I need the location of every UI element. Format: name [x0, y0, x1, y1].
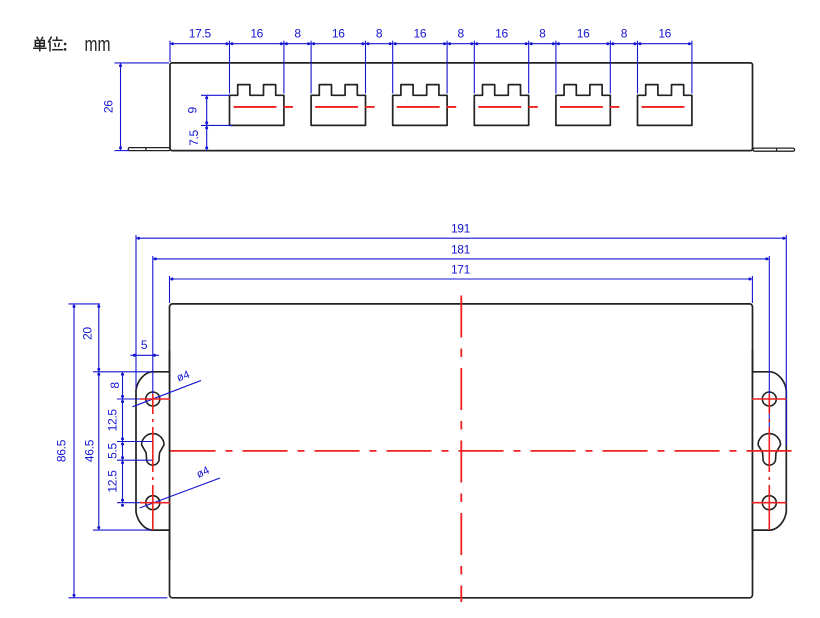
dim 86.5 line — [73, 304, 75, 598]
right ear bottom hole Ø4 — [762, 496, 776, 510]
svg-text:46.5: 46.5 — [82, 439, 96, 462]
dim 181 line — [153, 258, 770, 260]
svg-text:5: 5 — [141, 338, 148, 352]
unit label 位 (wei) glyph — [48, 37, 63, 52]
left ear bottom hole Ø4 — [146, 496, 160, 510]
leader line top Ø4 — [133, 381, 202, 407]
front view body outline — [170, 304, 753, 598]
stacked dim line 8 12.5 5.5 12.5 — [122, 372, 124, 503]
dim 26 extension bottom — [115, 150, 130, 152]
front view right mounting ear — [752, 372, 786, 530]
svg-text:191: 191 — [451, 222, 471, 236]
ear top extension line — [93, 371, 151, 373]
red mark left top hole — [140, 398, 170, 400]
svg-text:8: 8 — [621, 26, 628, 40]
unit label colon — [64, 43, 66, 45]
red mark right top hole — [752, 398, 787, 400]
svg-text:181: 181 — [451, 242, 471, 256]
svg-text:16: 16 — [414, 26, 427, 40]
top view left mounting tab — [128, 148, 170, 151]
connector block 4 — [474, 85, 528, 126]
dim 5 line — [131, 354, 160, 356]
leader line bottom Ø4 — [140, 478, 220, 508]
dim 171 line — [170, 278, 753, 280]
right ear keyhole slot — [758, 434, 780, 466]
svg-text:12.5: 12.5 — [105, 470, 119, 493]
svg-text:16: 16 — [577, 26, 590, 40]
extension line 171 right — [751, 276, 753, 303]
connector block 3 — [393, 85, 447, 126]
svg-text:mm: mm — [85, 34, 111, 56]
extension line 171 left — [169, 276, 171, 303]
dim 46.5 line — [98, 372, 100, 530]
svg-text:26: 26 — [101, 100, 115, 113]
svg-text:16: 16 — [250, 26, 263, 40]
unit label 单位 (dan) glyph — [33, 37, 47, 52]
top view horizontal dimension chain line — [170, 43, 692, 45]
dim 86.5 extension top — [69, 303, 101, 305]
top view red centerline through connectors — [234, 106, 689, 108]
extension at slot upper center — [117, 441, 153, 443]
svg-text:16: 16 — [332, 26, 345, 40]
svg-text:9: 9 — [185, 106, 199, 113]
connector block 5 — [556, 85, 610, 126]
svg-text:8: 8 — [108, 382, 122, 389]
extension at bottom hole center — [117, 502, 153, 504]
connector block 6 — [638, 85, 692, 126]
dim 191 line — [136, 237, 786, 239]
dim 86.5 extension bottom — [69, 597, 168, 599]
svg-text:7.5: 7.5 — [187, 129, 201, 145]
svg-text:20: 20 — [80, 327, 94, 340]
dim 9 extension at block top — [201, 94, 230, 96]
front view left mounting ear — [136, 372, 170, 530]
top view right mounting tab — [753, 148, 795, 151]
dim 26 line — [120, 63, 122, 151]
svg-text:12.5: 12.5 — [105, 409, 119, 432]
extension at top hole center — [117, 398, 153, 400]
red mark right bottom hole — [752, 502, 787, 504]
red mark left bottom hole — [140, 502, 170, 504]
left ear top hole Ø4 — [146, 392, 160, 406]
dim 26 extension top — [115, 62, 170, 64]
top view extension lines at block edges — [230, 41, 692, 94]
svg-text:16: 16 — [495, 26, 508, 40]
svg-text:8: 8 — [458, 26, 465, 40]
right ear vertical centerline — [768, 394, 770, 531]
top view body outline — [170, 63, 753, 151]
extension line 191 left — [135, 235, 137, 388]
main horizontal centerline — [171, 450, 802, 452]
extension at slot lower center — [117, 459, 153, 461]
svg-text:5.5: 5.5 — [105, 442, 119, 458]
connector block 2 — [311, 85, 365, 126]
front view body left edge — [169, 350, 171, 560]
svg-text:8: 8 — [376, 26, 383, 40]
svg-text:171: 171 — [451, 262, 471, 276]
extension line 181 left — [152, 256, 154, 395]
ear bottom extension line — [93, 529, 151, 531]
top view extension line at body left edge — [169, 41, 171, 62]
svg-text:17.5: 17.5 — [189, 26, 212, 40]
dim 9 and 7.5 line — [206, 95, 208, 150]
front view body right edge — [752, 350, 754, 560]
extension line 181 right — [768, 256, 770, 462]
connector block 1 — [230, 85, 284, 126]
left ear vertical centerline — [152, 394, 154, 531]
left ear keyhole slot — [142, 434, 164, 466]
svg-text:86.5: 86.5 — [54, 439, 68, 462]
extension line 191 right — [785, 235, 787, 446]
svg-text:8: 8 — [539, 26, 546, 40]
svg-text:8: 8 — [294, 26, 301, 40]
dim 20 line — [98, 304, 100, 372]
dim 9 extension at block bottom — [201, 124, 233, 126]
main vertical centerline — [460, 296, 462, 603]
svg-text:16: 16 — [658, 26, 671, 40]
top view dimension chain tick dots — [171, 42, 691, 45]
right ear top hole Ø4 — [762, 392, 776, 406]
